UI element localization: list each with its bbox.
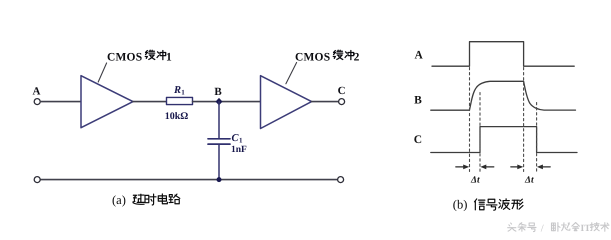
dashed line t2 (A falling edge) — [523, 68, 525, 172]
label CMOS buffer 1 — [107, 50, 172, 63]
waveform B trace — [431, 81, 576, 110]
terminal A — [34, 99, 40, 105]
resistor R1 body — [167, 97, 193, 104]
svg-text:A: A — [33, 86, 41, 98]
wire buffer 2 output to terminal C — [312, 101, 339, 103]
wire A to buffer 1 input — [40, 101, 81, 103]
dashed line t1+dt (C rising edge) — [479, 93, 481, 172]
wire resistor to buffer 2 input (through node B) — [193, 101, 261, 103]
svg-text:10kΩ: 10kΩ — [165, 111, 189, 122]
svg-text:(a): (a) — [112, 193, 126, 207]
svg-text:C: C — [414, 134, 422, 146]
leader line to label CMOS buffer 2 — [286, 63, 297, 84]
caption (a) 延时电路 — [112, 193, 180, 207]
wire buffer 1 output to resistor R1 — [133, 101, 166, 103]
dashed line t2+dt (C falling edge) — [536, 103, 538, 172]
label CMOS buffer 2 — [295, 50, 360, 63]
label C1 — [232, 133, 244, 145]
terminal C — [339, 99, 345, 105]
svg-text:2: 2 — [354, 52, 360, 64]
svg-text:A: A — [415, 50, 424, 62]
svg-text:1nF: 1nF — [231, 145, 247, 155]
svg-text:IT: IT — [581, 224, 592, 234]
svg-text:Δt: Δt — [524, 176, 534, 186]
svg-text:/: / — [541, 224, 544, 235]
caption (b) 信号波形 — [453, 198, 523, 212]
wire node B down to capacitor C1 — [218, 102, 220, 138]
svg-text:R: R — [173, 85, 181, 96]
capacitor C1 plates — [208, 139, 230, 144]
svg-text:1: 1 — [166, 52, 172, 64]
bottom rail wire — [40, 179, 337, 181]
svg-text:CMOS: CMOS — [107, 52, 142, 64]
op-amp buffer U2 (CMOS buffer 2) — [261, 76, 312, 129]
arrow right toward t1 — [456, 165, 469, 170]
svg-text:B: B — [414, 95, 422, 107]
svg-text:Δt: Δt — [470, 176, 480, 186]
terminal bottom-left — [34, 177, 40, 183]
waveform A trace — [432, 42, 574, 66]
arrow right toward t2 — [511, 165, 524, 170]
watermark 头条号 / 卧龙会IT技术 — [508, 223, 609, 235]
terminal bottom-right — [338, 177, 344, 183]
dashed line t1 (A rising edge) — [469, 68, 471, 172]
svg-text:CMOS: CMOS — [295, 52, 330, 64]
svg-text:B: B — [214, 86, 222, 98]
svg-text:C: C — [338, 85, 346, 97]
label R1 — [173, 85, 185, 97]
svg-text:(b): (b) — [453, 198, 468, 212]
leader line to label CMOS buffer 1 — [98, 63, 106, 82]
svg-text:1: 1 — [181, 88, 185, 96]
junction node B — [216, 98, 223, 105]
arrow left toward t2+dt — [537, 165, 550, 170]
junction capacitor-rail — [217, 177, 222, 182]
waveform C trace — [431, 127, 577, 153]
svg-text:1: 1 — [239, 137, 243, 145]
wire capacitor C1 to bottom rail — [218, 145, 220, 180]
arrow left toward t1+dt — [480, 165, 494, 170]
op-amp buffer U1 (CMOS buffer 1) — [81, 76, 133, 128]
